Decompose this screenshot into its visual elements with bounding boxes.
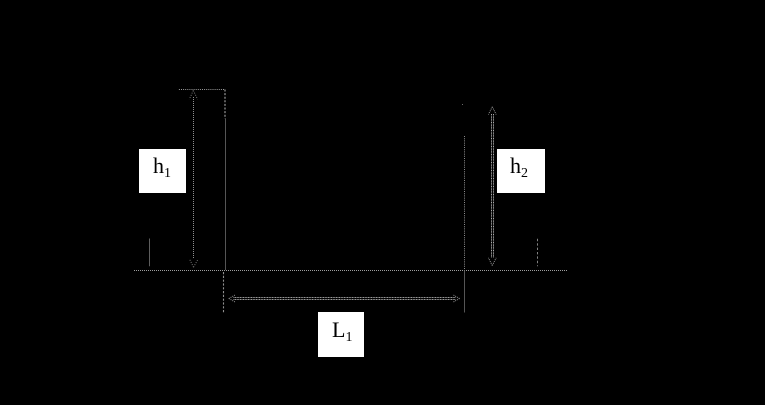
- L1 dimension arrow left: [229, 295, 236, 303]
- h1 dimension line (vertical dotted): [193, 97, 195, 259]
- h1 dimension arrow down: [189, 259, 197, 267]
- left ground tick: [149, 239, 151, 267]
- h2 dimension arrow up: [488, 107, 496, 115]
- left buried post line (dashed, below ground): [223, 272, 225, 313]
- right buried post line (solid, below ground): [464, 271, 466, 313]
- right post (dotted, above ground): [464, 136, 466, 270]
- left post (solid): [225, 119, 227, 271]
- h2 label box: [497, 149, 545, 193]
- L1 label box: [318, 312, 364, 357]
- h1 label box: [139, 149, 186, 193]
- left post top segment (dashed): [224, 90, 226, 119]
- top extension line (dotted, above left post): [179, 89, 225, 91]
- L1 dimension line (double dotted row): [234, 298, 456, 300]
- L1 dimension arrow right: [453, 295, 460, 303]
- ground line (dotted): [134, 270, 568, 272]
- h1 dimension arrow up: [189, 91, 197, 100]
- right ground tick (dashed): [537, 239, 539, 266]
- h2 dimension line (double dotted column): [492, 114, 494, 258]
- h2 dimension arrow down: [488, 258, 496, 266]
- right post stray dot: [462, 104, 463, 105]
